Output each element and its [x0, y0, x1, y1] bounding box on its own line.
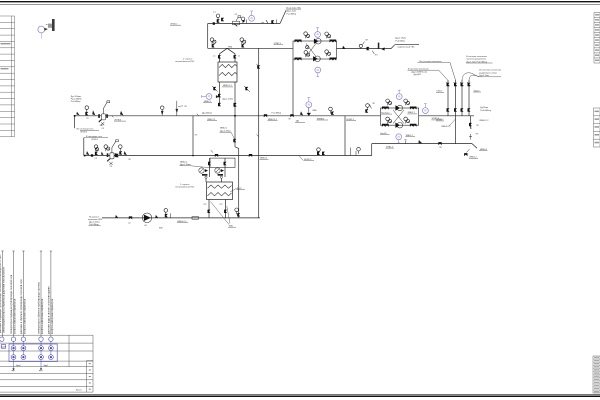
svg-text:контроль измерение параметров: контроль измерение параметров [42, 298, 44, 334]
svg-text:Ду25мм: Ду25мм [480, 107, 488, 109]
svg-text:РВБ: РВБ [228, 46, 233, 48]
svg-text:Р=0.6Мар: Р=0.6Мар [71, 101, 81, 103]
svg-text:полотенцесушители: полотенцесушители [466, 59, 486, 61]
svg-text:Ду=1.2мм: Ду=1.2мм [287, 11, 297, 13]
svg-text:Ду=Д25: Ду=Д25 [414, 74, 422, 76]
svg-text:давление воды в системе отопле: давление воды в системе отопления здания [49, 286, 51, 334]
svg-text:контроль измерение параметров: контроль измерение параметров [24, 298, 26, 334]
svg-text:ИВБ: ИВБ [312, 110, 317, 112]
svg-text:ИВБ4.2.2: ИВБ4.2.2 [480, 120, 490, 122]
svg-text:Ду=1.19мм: Ду=1.19мм [223, 98, 234, 100]
svg-text:Ду=0.25МПа мм: Ду=0.25МПа мм [412, 71, 428, 73]
svg-text:Из системы отопления: Из системы отопления [479, 70, 501, 72]
svg-text:сигнализация контроль параметр: сигнализация контроль параметров давлени… [4, 267, 6, 333]
svg-text:радиаторы стояки: радиаторы стояки [479, 72, 497, 74]
svg-text:контроль измерение параметров: контроль измерение параметров [52, 298, 54, 334]
svg-text:теплообменник ГВС: теплообменник ГВС [175, 187, 195, 189]
svg-text:Р=0.6Мар: Р=0.6Мар [287, 14, 297, 16]
svg-text:Р=0.6Мбар: Р=0.6Мбар [480, 110, 492, 112]
svg-text:Р=0.6Мар: Р=0.6Мар [272, 112, 282, 114]
svg-text:Ду=200мм: Ду=200мм [202, 113, 213, 115]
svg-text:Всего: Всего [76, 390, 83, 392]
svg-text:Зфу2: Зфу2 [43, 364, 49, 367]
svg-text:ВТ064: ВТ064 [92, 139, 99, 141]
svg-text:ИВБ2.1: ИВБ2.1 [220, 128, 228, 130]
svg-text:температура в подающем трубопр: температура в подающем трубопроводе тепл… [10, 274, 13, 334]
svg-text:ИВБ4.2.2: ИВБ4.2.2 [442, 126, 452, 128]
svg-text:В системе отопления: В системе отопления [466, 56, 487, 58]
svg-text:1 ступень: 1 ступень [180, 184, 189, 186]
svg-text:Р=0.6Мар: Р=0.6Мар [395, 40, 405, 42]
svg-text:Ду=1.19мм: Ду=1.19мм [395, 37, 406, 39]
svg-text:давление в обратном трубопрово: давление в обратном трубопроводе теплово… [20, 279, 23, 334]
svg-text:Из тепловой сети: Из тепловой сети [77, 128, 95, 131]
svg-text:контроль измерение параметров: контроль измерение параметров [15, 298, 17, 334]
svg-text:теплообменник ГВС: теплообменник ГВС [175, 61, 195, 63]
svg-text:подпиточный ГВС: подпиточный ГВС [398, 46, 416, 49]
svg-text:Зфу2: Зфу2 [16, 364, 22, 367]
svg-text:давление в подающем трубопрово: давление в подающем трубопроводе теплово… [0, 254, 2, 333]
svg-text:ЦТП: ЦТП [2, 347, 7, 349]
svg-text:температура в обратном трубопр: температура в обратном трубопроводе сист… [39, 282, 41, 334]
svg-text:ВТ1Ф4: ВТ1Ф4 [81, 131, 88, 134]
